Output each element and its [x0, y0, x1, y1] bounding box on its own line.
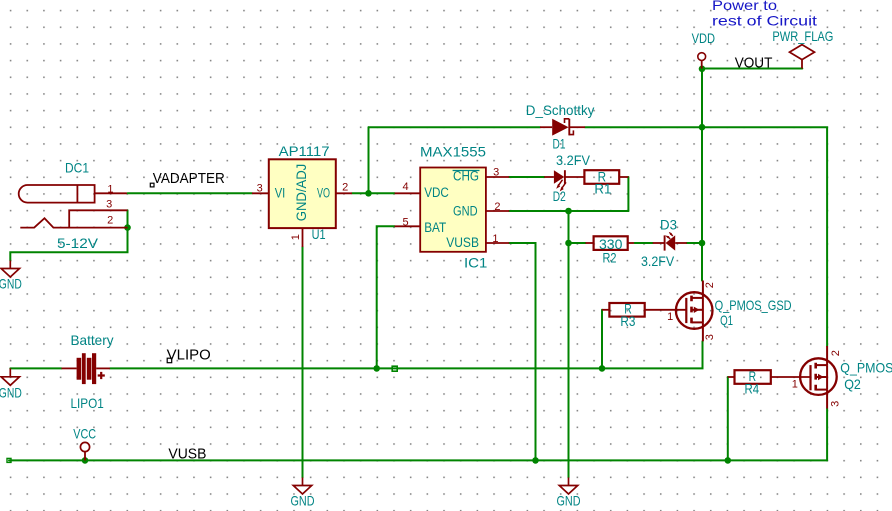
svg-text:GND/ADJ: GND/ADJ: [294, 164, 309, 221]
wire end square VLIPO mid: [392, 366, 397, 371]
svg-text:VCC: VCC: [73, 425, 96, 441]
svg-text:2: 2: [342, 182, 348, 194]
svg-text:VDC: VDC: [424, 185, 449, 200]
svg-text:VOUT: VOUT: [735, 56, 773, 72]
svg-text:1: 1: [792, 378, 798, 390]
svg-text:3: 3: [257, 183, 263, 195]
svg-text:DC1: DC1: [65, 160, 89, 176]
svg-text:3: 3: [106, 199, 112, 211]
junction VDD rail / D3 row: [699, 240, 706, 247]
transistor Q2 Q_PMOS: [800, 346, 837, 409]
wire VUSB net horizontal: [9, 459, 827, 461]
wire Q2 pin3 down: [826, 409, 828, 461]
svg-text:GND: GND: [0, 275, 22, 291]
svg-text:VUSB: VUSB: [168, 447, 206, 463]
resistor R4: [735, 370, 771, 384]
svg-text:1: 1: [290, 234, 302, 240]
wire R2 left stub: [569, 242, 586, 244]
svg-text:BAT: BAT: [424, 220, 446, 235]
wire MAX1555 BAT to VLIPO: [377, 226, 395, 368]
svg-text:R3: R3: [620, 313, 635, 329]
wire MAX1555 CHG to D2: [509, 176, 544, 178]
wire to D1 anode: [369, 126, 541, 128]
junction VDD rail / D1 row: [699, 124, 706, 131]
junction U1 VO / MAX VDC: [365, 190, 372, 197]
wire R4 down to VUSB: [727, 377, 729, 460]
junction R4 / VUSB net: [725, 457, 732, 464]
wire U1 VO to MAX1555 VDC: [352, 192, 395, 194]
svg-text:3.2FV: 3.2FV: [641, 253, 675, 269]
resistor R1: [584, 170, 619, 184]
wire MAX1555 GND pin row: [509, 210, 628, 212]
junction DC1 pins 2-3: [124, 224, 131, 231]
wire MAX1555 VUSB pin to VUSB net: [509, 243, 535, 460]
svg-text:3: 3: [704, 334, 716, 340]
svg-text:rest of Circuit: rest of Circuit: [712, 12, 817, 28]
svg-text:Battery: Battery: [71, 332, 114, 348]
wire VLIPO right of battery to Q1 pin3: [110, 341, 703, 368]
svg-text:D_Schottky: D_Schottky: [526, 102, 595, 118]
svg-text:VADAPTER: VADAPTER: [153, 171, 225, 187]
power symbol VDD: [698, 53, 706, 61]
svg-text:R2: R2: [603, 250, 617, 266]
wire D3 to VDD rail: [687, 242, 702, 244]
svg-text:1: 1: [107, 183, 113, 195]
wire D1 cathode to right rail down to Q2 pin2: [585, 127, 827, 346]
wire DC1 pin3/pin2 to GND: [10, 210, 127, 260]
svg-text:1: 1: [492, 233, 498, 245]
svg-text:VO: VO: [317, 186, 330, 201]
svg-text:R4: R4: [745, 381, 760, 397]
svg-text:5: 5: [402, 217, 408, 229]
svg-text:Q1: Q1: [720, 312, 733, 328]
svg-text:3.2FV: 3.2FV: [556, 152, 591, 168]
svg-text:5-12V: 5-12V: [57, 235, 99, 251]
svg-text:PWR_FLAG: PWR_FLAG: [772, 28, 833, 44]
ground GND3 (rail): [559, 478, 577, 495]
resistor R3: [609, 303, 644, 317]
IC U2 MAX1555: [420, 168, 486, 252]
svg-text:2: 2: [704, 282, 716, 288]
svg-text:Q_PMOS_GSD: Q_PMOS_GSD: [715, 297, 792, 313]
diode D3 LED: [653, 232, 687, 251]
regulator U1 AP1117: [269, 159, 336, 228]
svg-text:Power to: Power to: [712, 0, 777, 13]
svg-text:D2: D2: [553, 188, 566, 204]
junction BAT wire / VLIPO: [373, 365, 380, 372]
junction VCC / VUSB net: [82, 457, 89, 464]
battery LIPO1: [77, 353, 97, 384]
junction VDD stub / VOUT: [699, 66, 706, 73]
svg-text:GND: GND: [291, 493, 315, 509]
wire U1 GND pin down: [302, 247, 304, 478]
wire VOUT horizontal: [702, 68, 802, 70]
wire R1 right down: [627, 177, 629, 211]
svg-text:D1: D1: [553, 136, 566, 152]
transistor Q1 Q_PMOS_GSD: [676, 281, 713, 342]
svg-text:GND: GND: [557, 493, 581, 509]
svg-text:AP1117: AP1117: [279, 143, 330, 159]
svg-text:VDD: VDD: [692, 30, 716, 46]
svg-text:U1: U1: [312, 226, 326, 242]
diode D1 D_Schottky: [540, 119, 585, 136]
power flag PWR_FLAG: [790, 45, 815, 60]
connector DC1: [19, 185, 128, 228]
wire VADAPTER DC1 pin1 to U1 VI: [128, 192, 253, 194]
svg-text:Q_PMOS_: Q_PMOS_: [840, 359, 892, 375]
wire VDD rail vertical: [701, 69, 703, 281]
svg-text:VUSB: VUSB: [446, 235, 479, 250]
ground GND2 (U1): [293, 478, 311, 495]
junction R3 / VLIPO: [599, 365, 606, 372]
resistor R2: [594, 236, 628, 250]
wire GND rail vertical: [568, 211, 570, 478]
svg-text:VLIPO: VLIPO: [167, 347, 211, 363]
svg-text:Q2: Q2: [844, 376, 861, 392]
wire end square VUSB left: [7, 458, 11, 462]
svg-text:LIPO1: LIPO1: [71, 395, 104, 411]
svg-text:3: 3: [830, 401, 842, 407]
svg-text:4: 4: [402, 181, 408, 193]
ground GND1 (DC1): [1, 261, 19, 278]
svg-text:1: 1: [667, 311, 673, 323]
wire R3 down to VLIPO: [601, 310, 603, 369]
svg-text:VI: VI: [275, 186, 286, 201]
svg-text:GND: GND: [0, 385, 22, 401]
svg-text:R1: R1: [594, 181, 611, 197]
svg-text:IC1: IC1: [464, 255, 488, 271]
svg-text:3: 3: [493, 167, 499, 179]
svg-text:MAX1555: MAX1555: [420, 143, 486, 159]
ground GND4 (battery): [1, 368, 19, 385]
junction VUSB pin wire / VUSB net: [532, 457, 539, 464]
svg-text:2: 2: [107, 214, 113, 226]
svg-text:2: 2: [494, 201, 500, 213]
power symbol VCC: [80, 442, 89, 451]
diode D2 LED: [544, 170, 584, 191]
wire VLIPO left of battery: [10, 367, 61, 369]
wire node VOUT riser from U1 output: [368, 127, 370, 193]
junction GND rail / R1: [565, 208, 572, 215]
junction GND rail / R2: [565, 240, 572, 247]
svg-text:GND: GND: [453, 203, 478, 218]
svg-text:D3: D3: [660, 217, 677, 233]
svg-text:2: 2: [830, 350, 842, 356]
